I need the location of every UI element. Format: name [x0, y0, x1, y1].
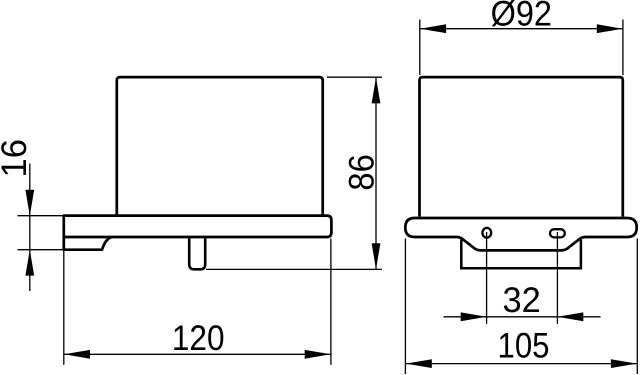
svg-text:32: 32: [502, 280, 540, 320]
dim 120: right arrow: [305, 350, 331, 359]
dim 32: extension line left (through left hole): [486, 232, 488, 324]
dim 86: dimension line: [375, 78, 377, 270]
dim 105: extension line left: [404, 239, 406, 375]
svg-text:120: 120: [172, 318, 225, 358]
wall plate below bar (front view): [461, 240, 581, 269]
dim 16: dimension line: [29, 164, 31, 292]
dim 105: dimension line: [406, 363, 637, 365]
right mounting hole (slot): [550, 229, 565, 237]
dim 86: upper arrow (pointing up): [372, 78, 381, 104]
dim 86: lower arrow (pointing down): [372, 243, 381, 269]
dim 120: dimension line: [64, 353, 331, 355]
bracket plate slab (side view): [64, 216, 332, 237]
dim 32: extension line right (through right hole): [556, 232, 558, 324]
dim 32: left arrow (outside, pointing right): [461, 312, 487, 321]
bracket lip (side view, lower left hook): [64, 237, 111, 250]
dim 86: extension line bottom: [206, 268, 382, 270]
dim 32: right arrow (outside, pointing left): [557, 312, 583, 321]
dim 105: extension line right: [636, 239, 638, 375]
dim Ø92: dimension line: [420, 28, 623, 30]
pump nozzle (side view): [189, 238, 205, 269]
holder bar (front view pill) with recess contour: [405, 218, 636, 250]
dim 16: upper arrow (pointing down): [25, 190, 34, 216]
dim 16: extension line bottom: [18, 249, 65, 251]
svg-text:105: 105: [498, 325, 550, 365]
glass body (side view): [117, 77, 323, 215]
dim 120: left arrow: [64, 350, 90, 359]
dim 16: extension line top: [18, 215, 65, 217]
dim 105: left arrow: [406, 359, 432, 368]
dim Ø92: left arrow: [420, 24, 446, 33]
svg-text:Ø92: Ø92: [491, 0, 552, 34]
dim 120: extension line right: [330, 239, 332, 365]
svg-text:16: 16: [0, 139, 34, 178]
dim 105: right arrow: [611, 359, 637, 368]
dim Ø92: extension line left: [419, 20, 421, 76]
dim 16: lower arrow (pointing up): [25, 250, 34, 276]
left mounting hole (oval): [482, 228, 491, 238]
svg-text:86: 86: [342, 154, 382, 190]
dim Ø92: extension line right: [622, 20, 624, 76]
dim 120: extension line left: [63, 251, 65, 365]
dim 32: dimension line: [444, 316, 601, 318]
glass body (front view): [420, 77, 623, 216]
dim 86: extension line top: [327, 76, 382, 78]
dim Ø92: right arrow: [597, 24, 623, 33]
